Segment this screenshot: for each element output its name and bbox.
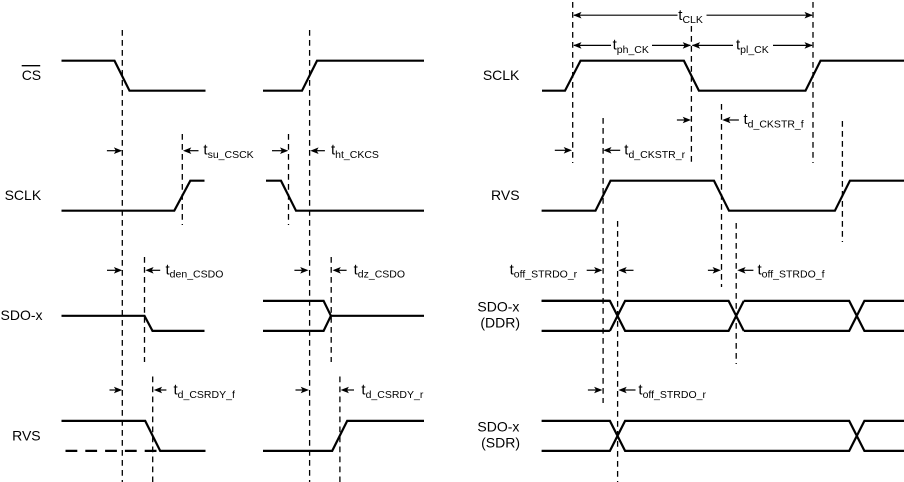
CS waveform segment 2: low then rising to high bbox=[263, 61, 424, 91]
arrow pointing left into RVS fall guide (td_CKSTR_f) bbox=[722, 117, 739, 124]
svg-text:SCLK: SCLK bbox=[5, 187, 42, 203]
svg-text:RVS: RVS bbox=[12, 428, 41, 444]
arrow pointing left into DDR crossing 2 guide (toff_STRDO_f) bbox=[737, 267, 753, 274]
dashed guide: CS falling edge (left) bbox=[121, 30, 123, 482]
dashed guide: CS rising edge (left) bbox=[309, 30, 311, 482]
svg-text:SDO-x: SDO-x bbox=[1, 307, 43, 323]
SDO-x waveform segment 2: driven bus rails converging to hi-z bbox=[263, 301, 424, 316]
dashed guide: SDO data crossing 1 (right) bbox=[617, 221, 619, 482]
dashed guide: SCLK falling edge (right) bbox=[690, 26, 692, 163]
SDO-x DDR left rail stubs bbox=[542, 301, 610, 331]
arrow pointing left into SDO enable guide (tden_CSDO) bbox=[145, 267, 160, 274]
arrow pointing right into RVS rise guide (toff_STRDO_r SDR) bbox=[588, 387, 603, 394]
arrow pointing left into SDR crossing guide (toff_STRDO_r SDR) bbox=[618, 387, 635, 394]
arrow pointing left into RVS rise guide (td_CKSTR_r) bbox=[603, 147, 620, 154]
SCLK waveform segment 2: high then falling to low bbox=[266, 181, 424, 211]
arrow pointing right into RVS rise guide (toff_STRDO_r DDR) bbox=[587, 267, 603, 274]
dimension arrow tpl_CK bbox=[692, 42, 813, 49]
RVS dashed low-level reference line bbox=[66, 450, 161, 452]
arrow pointing left into SDO hi-z guide (tdz_CSDO) bbox=[333, 267, 347, 274]
dashed guide: SCLK falling edge (tht_CKCS) bbox=[288, 134, 290, 225]
dashed guide: SDO enable start (tden_CSDO) bbox=[144, 257, 146, 362]
dashed guide: RVS falling edge (td_CSRDY_f) bbox=[152, 377, 154, 482]
RVS waveform (right): strobe output toggling bbox=[542, 181, 904, 211]
SDO-x waveform segment 1: tri-state mid level then driven low bbox=[62, 316, 205, 331]
svg-text:(DDR): (DDR) bbox=[480, 314, 520, 330]
dashed guide: RVS rising edge 2 (right) bbox=[841, 121, 843, 242]
arrow pointing left into SCLK rise guide (tsu_CSCK) bbox=[183, 147, 199, 154]
dashed guide: SCLK rising edge 2 (right) bbox=[812, 2, 814, 163]
arrow pointing right into CS rise guide (tdz_CSDO) bbox=[294, 267, 308, 274]
CS waveform segment 1: high then falling to low bbox=[62, 61, 206, 91]
arrow pointing right into SCLK rise guide (td_CKSTR_r) bbox=[555, 147, 572, 154]
SDO-x DDR bus top rail with crossings bbox=[542, 301, 744, 331]
SDO-x bus lower rail converging bbox=[263, 316, 331, 331]
svg-text:SDO-x: SDO-x bbox=[477, 418, 519, 434]
dashed guide: RVS falling edge (right) bbox=[721, 104, 723, 287]
dimension arrow tph_CK bbox=[573, 42, 691, 49]
dashed guide: SCLK rising edge 1 (right) bbox=[572, 2, 574, 163]
arrow pointing right into SCLK fall guide (tht_CKCS) bbox=[272, 147, 288, 154]
SDO-x DDR bus rails after crossing 2 to crossing 3 bbox=[744, 301, 904, 331]
svg-text:SDO-x: SDO-x bbox=[477, 298, 519, 314]
dashed guide: RVS rising edge (td_CSRDY_r) bbox=[339, 377, 341, 482]
arrow pointing left into RVS fall guide (td_CSRDY_f) bbox=[154, 387, 167, 394]
arrow pointing right into CS fall guide (tsu_CSCK) bbox=[107, 147, 122, 154]
RVS waveform segment 1: high then falling to low bbox=[62, 421, 206, 451]
signal label CS with overline bbox=[22, 66, 41, 83]
SDO-x SDR bus rails with crossings bbox=[542, 421, 904, 451]
SCLK waveform (right): two clock periods bbox=[542, 61, 904, 91]
SCLK waveform segment 1: low then rising bbox=[62, 181, 205, 211]
arrow pointing right into CS rise guide (td_CSRDY_r) bbox=[296, 387, 310, 394]
arrow pointing left into CS rise guide (tht_CKCS) bbox=[310, 147, 325, 154]
svg-text:(SDR): (SDR) bbox=[481, 434, 520, 450]
dashed guide: SDO DDR crossing 2 bbox=[735, 223, 737, 364]
arrow pointing right into CS fall guide (tden_CSDO) bbox=[107, 267, 122, 274]
svg-text:SCLK: SCLK bbox=[483, 67, 520, 83]
svg-text:RVS: RVS bbox=[491, 187, 520, 203]
RVS waveform segment 2: low then rising to high bbox=[263, 421, 424, 451]
arrow pointing right into RVS fall guide (toff_STRDO_f) bbox=[708, 267, 721, 274]
dashed guide: SDO hi-z point (tdz_CSDO) bbox=[330, 257, 332, 362]
arrow pointing left into RVS rise guide (td_CSRDY_r) bbox=[341, 387, 354, 394]
arrow pointing right into SCLK fall guide (td_CKSTR_f) bbox=[677, 117, 691, 124]
arrow pointing left into DDR crossing guide (toff_STRDO_r DDR) bbox=[618, 267, 633, 274]
dashed guide: RVS rising edge 1 (right) bbox=[602, 118, 604, 403]
dashed guide: SCLK rising edge (left, tsu_CSCK) bbox=[181, 134, 183, 225]
arrow pointing right into CS fall guide (td_CSRDY_f) bbox=[110, 387, 123, 394]
dimension arrow tCLK bbox=[573, 12, 813, 19]
svg-text:CS: CS bbox=[22, 67, 41, 83]
